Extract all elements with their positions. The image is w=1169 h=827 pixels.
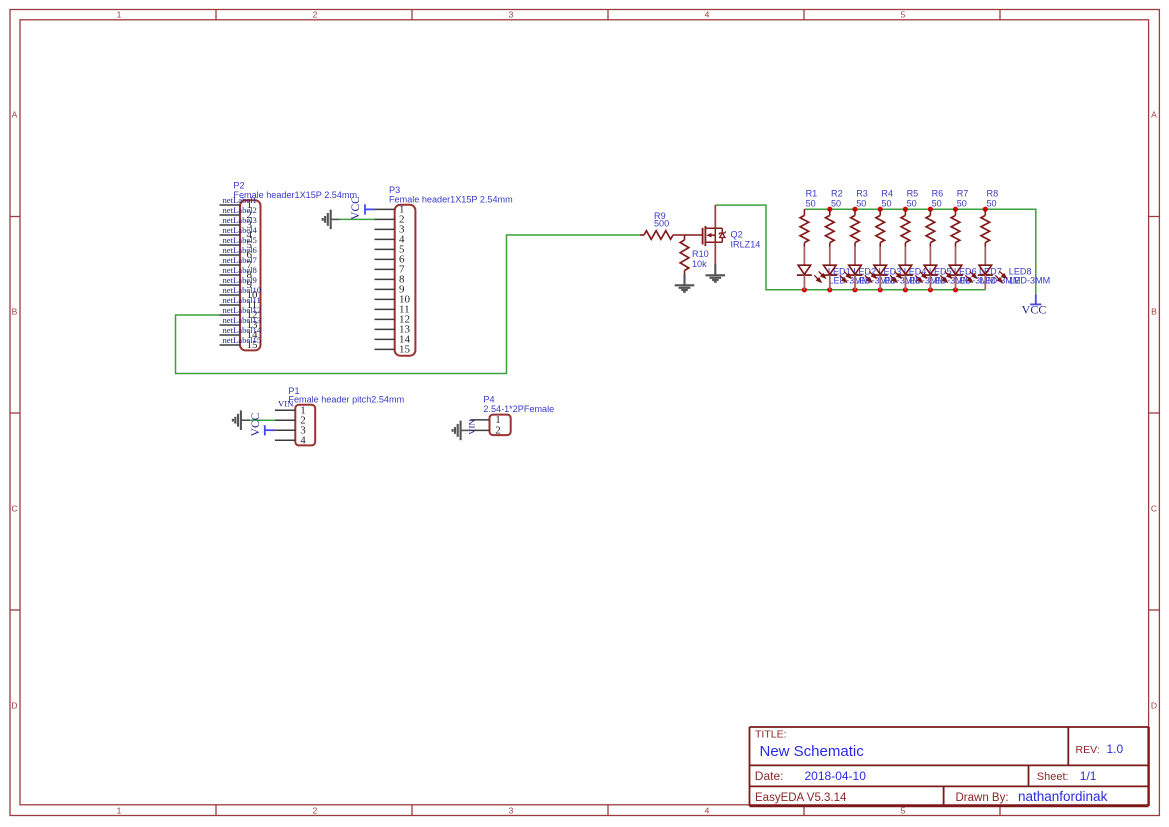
P2 pin 6	[220, 254, 241, 256]
wire P1 pin2 to ground	[250, 419, 275, 421]
svg-text:P4: P4	[483, 394, 494, 404]
svg-text:REV:: REV:	[1076, 744, 1100, 756]
svg-text:3: 3	[509, 806, 514, 816]
svg-text:LED-3MM: LED-3MM	[1009, 275, 1050, 285]
wire Q2 drain to LED cathode rail	[715, 205, 985, 290]
svg-text:netLabel12: netLabel12	[223, 305, 262, 315]
LED LED8	[978, 247, 1006, 290]
svg-text:50: 50	[831, 198, 841, 208]
svg-text:R7: R7	[957, 189, 969, 199]
svg-text:R4: R4	[881, 189, 893, 199]
svg-text:50: 50	[806, 198, 816, 208]
junction dots on cathode rail	[802, 287, 958, 292]
wire P2 pin12 to R9 (gate net)	[176, 235, 641, 374]
resistor R1	[803, 209, 805, 215]
border row labels left	[11, 109, 17, 710]
svg-text:EasyEDA V5.3.14: EasyEDA V5.3.14	[755, 792, 847, 804]
border column ticks top	[216, 10, 1000, 20]
P2 pin 5	[220, 244, 241, 246]
svg-text:netLabel7: netLabel7	[223, 255, 258, 265]
svg-text:Female header1X15P 2.54mm: Female header1X15P 2.54mm	[389, 195, 513, 205]
svg-text:netLabel9: netLabel9	[223, 275, 257, 285]
svg-text:netLabel4: netLabel4	[223, 225, 258, 235]
P2 pin 15	[220, 344, 241, 346]
svg-text:C: C	[11, 503, 17, 513]
svg-text:50: 50	[856, 198, 866, 208]
svg-text:50: 50	[957, 198, 967, 208]
border row labels right	[1151, 109, 1157, 710]
P3 pin 12	[375, 318, 395, 320]
P2 pin 13	[220, 324, 241, 326]
P3 pin 3	[375, 228, 395, 230]
svg-text:D: D	[1151, 700, 1157, 710]
wire VCC rail to resistor tops	[804, 209, 1035, 294]
svg-text:1: 1	[117, 806, 122, 816]
svg-text:VIN: VIN	[467, 419, 477, 435]
svg-text:R3: R3	[856, 189, 868, 199]
svg-text:R8: R8	[987, 189, 999, 199]
border column labels top	[117, 10, 906, 20]
resistor R5	[904, 209, 906, 215]
svg-text:2018-04-10: 2018-04-10	[805, 769, 867, 783]
P4 pin 2	[470, 429, 489, 431]
svg-text:3: 3	[509, 10, 514, 20]
svg-text:A: A	[12, 109, 18, 119]
resistor R10	[684, 235, 686, 240]
P2 pin 1	[220, 204, 241, 206]
LED LED1	[797, 247, 825, 290]
svg-text:netLabel13: netLabel13	[223, 315, 262, 325]
svg-text:VCC: VCC	[1022, 303, 1047, 317]
svg-text:R1: R1	[806, 189, 818, 199]
P2 pin 12	[220, 314, 241, 316]
P3 pin 1	[375, 208, 395, 210]
svg-text:netLabel15: netLabel15	[223, 335, 262, 345]
P3 pin 8	[375, 278, 395, 280]
junction dots on VCC rail	[827, 207, 988, 212]
P1 pin 3	[275, 429, 295, 431]
border column labels bottom	[117, 806, 906, 816]
connector P2 body	[240, 200, 261, 350]
P2 pin 8	[220, 274, 241, 276]
P1 pin 1	[275, 409, 295, 411]
LED LED3	[848, 247, 876, 290]
svg-text:2: 2	[313, 806, 318, 816]
P3 pin 13	[375, 328, 395, 330]
svg-text:4: 4	[705, 10, 710, 20]
svg-text:P3: P3	[389, 185, 400, 195]
connector P4 body	[490, 415, 511, 436]
resistor R2	[829, 209, 831, 215]
svg-text:B: B	[1151, 306, 1157, 316]
LED LED7	[948, 247, 976, 290]
resistor R4	[879, 209, 881, 215]
svg-text:netLabel8: netLabel8	[223, 265, 257, 275]
svg-text:4: 4	[705, 806, 710, 816]
P3 pin 7	[375, 268, 395, 270]
svg-text:50: 50	[907, 198, 917, 208]
power flag VCC at P3 pin1	[365, 208, 375, 210]
P2 pin 11	[220, 304, 241, 306]
P2 pin 14	[220, 334, 241, 336]
svg-text:Q2: Q2	[731, 230, 743, 240]
ground at P1 pin2	[241, 419, 250, 421]
LED LED4	[873, 247, 901, 290]
svg-text:nathanfordinak: nathanfordinak	[1018, 789, 1108, 804]
svg-text:10k: 10k	[692, 259, 707, 269]
svg-text:A: A	[1151, 109, 1157, 119]
P3 pin 10	[375, 298, 395, 300]
P2 pin 10	[220, 294, 241, 296]
svg-text:50: 50	[881, 198, 891, 208]
svg-text:netLabel1: netLabel1	[223, 195, 257, 205]
resistor R9	[640, 234, 644, 236]
ground below R10	[683, 275, 685, 286]
svg-text:IRLZ14: IRLZ14	[731, 239, 761, 249]
svg-text:netLabel5: netLabel5	[223, 235, 257, 245]
P3 pin 6	[375, 258, 395, 260]
svg-text:15: 15	[399, 344, 411, 356]
svg-text:Sheet:: Sheet:	[1037, 771, 1069, 783]
svg-text:R6: R6	[932, 189, 944, 199]
P1 pin 4	[275, 439, 295, 441]
ground at P4 pin2	[461, 429, 470, 431]
resistor R6	[929, 209, 931, 215]
svg-text:Female header pitch2.54mm: Female header pitch2.54mm	[288, 395, 404, 405]
svg-text:1: 1	[117, 10, 122, 20]
svg-text:VIN: VIN	[278, 399, 294, 409]
svg-text:50: 50	[932, 198, 942, 208]
svg-text:New Schematic: New Schematic	[760, 743, 865, 760]
svg-text:C: C	[1151, 503, 1157, 513]
svg-text:netLabel11: netLabel11	[223, 295, 261, 305]
P3 pin 14	[375, 338, 395, 340]
P3 pin 2	[375, 218, 395, 220]
svg-text:B: B	[12, 306, 18, 316]
power flag VCC at P1 pin3	[265, 429, 275, 431]
svg-text:P2: P2	[233, 180, 244, 190]
P3 pin 4	[375, 238, 395, 240]
P1 pin 2	[275, 419, 295, 421]
P2 pin 4	[220, 234, 241, 236]
P2 pin 2	[220, 214, 241, 216]
svg-text:VCC: VCC	[350, 196, 362, 220]
P3 pin 11	[375, 308, 395, 310]
svg-text:netLabel2: netLabel2	[223, 205, 257, 215]
power flag VCC at rail end	[1035, 294, 1037, 304]
P3 pin 15	[375, 348, 395, 350]
wire P3 pin2 to ground	[340, 218, 375, 220]
svg-text:netLabel3: netLabel3	[223, 215, 257, 225]
svg-text:TITLE:: TITLE:	[755, 729, 787, 741]
title block outline	[750, 727, 1149, 806]
svg-text:R10: R10	[692, 249, 709, 259]
svg-text:1.0: 1.0	[1107, 742, 1124, 756]
svg-text:5: 5	[901, 10, 906, 20]
ground at P3 pin2	[331, 218, 340, 220]
svg-text:1/1: 1/1	[1080, 769, 1097, 783]
P3 pin 5	[375, 248, 395, 250]
svg-text:netLabel10: netLabel10	[223, 285, 262, 295]
svg-text:VCC: VCC	[250, 412, 262, 436]
connector P1 body	[295, 405, 315, 446]
resistor R3	[854, 209, 856, 215]
connector P3 body	[395, 205, 416, 356]
svg-text:netLabel14: netLabel14	[223, 325, 262, 335]
svg-text:R2: R2	[831, 189, 843, 199]
svg-text:Drawn By:: Drawn By:	[956, 792, 1009, 804]
svg-text:4: 4	[300, 434, 306, 446]
LED LED2	[822, 247, 850, 290]
svg-text:2: 2	[313, 10, 318, 20]
transistor Q2 IRLZ14	[703, 205, 726, 264]
svg-text:netLabel6: netLabel6	[223, 245, 258, 255]
border row ticks left	[10, 217, 20, 611]
P2 pin 7	[220, 264, 241, 266]
ground below Q2 source	[714, 264, 716, 275]
P2 pin 3	[220, 224, 241, 226]
LED LED5	[898, 247, 926, 290]
P2 pin 9	[220, 284, 241, 286]
border row ticks right	[1149, 217, 1160, 611]
P3 pin 9	[375, 288, 395, 290]
border column ticks bottom	[216, 805, 1000, 816]
LED LED6	[923, 247, 951, 290]
svg-text:R5: R5	[907, 189, 919, 199]
svg-text:2.54-1*2PFemale: 2.54-1*2PFemale	[483, 404, 554, 414]
resistor R7	[955, 209, 957, 215]
svg-text:50: 50	[987, 198, 997, 208]
P4 pin 1	[470, 419, 489, 421]
svg-text:500: 500	[654, 219, 669, 229]
svg-text:2: 2	[495, 425, 501, 437]
resistor R8	[984, 209, 986, 215]
svg-text:Date:: Date:	[755, 769, 784, 783]
svg-text:D: D	[11, 700, 17, 710]
